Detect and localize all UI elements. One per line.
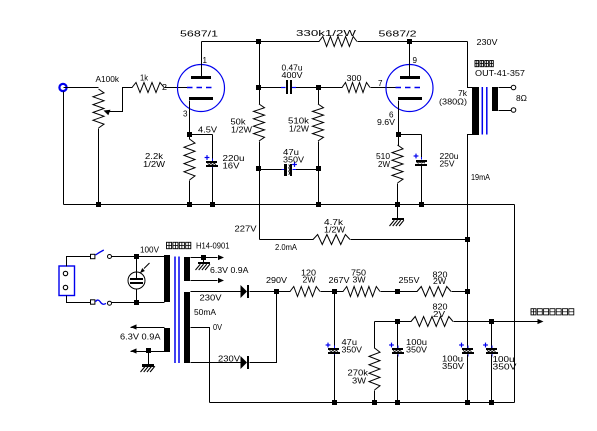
svg-text:4.5V: 4.5V — [198, 125, 217, 135]
wire 750 to 255V node — [381, 289, 418, 294]
wire heater2 top tap — [131, 324, 165, 329]
svg-text:400V: 400V — [282, 70, 303, 80]
wire 1k to tube V1 grid — [165, 87, 188, 89]
transformer T2 model label — [475, 68, 525, 78]
ground symbol center — [390, 205, 405, 227]
svg-text:25V: 25V — [440, 159, 455, 169]
svg-text:5687/2: 5687/2 — [379, 29, 417, 39]
svg-text:230V: 230V — [200, 293, 222, 303]
wire lamp bottom — [136, 290, 138, 303]
resistor 300 grid stopper V2 — [319, 73, 396, 93]
label 6.3V 0.9A left — [120, 332, 161, 342]
svg-text:9.6V: 9.6V — [377, 117, 395, 127]
svg-text:6.3V 0.9A: 6.3V 0.9A — [120, 332, 161, 342]
capacitor 100u 350V filter c — [483, 322, 517, 403]
wire OPT primary bottom B+ feed — [465, 135, 473, 292]
tube V2 5687/2 envelope — [386, 65, 433, 112]
potentiometer A100k — [93, 74, 120, 128]
wire V1 cathode drop — [187, 101, 192, 138]
pin 2 label V1 — [162, 82, 167, 92]
label 4.5V — [198, 125, 217, 135]
svg-text:3W: 3W — [352, 376, 367, 386]
svg-text:OUT-41-357: OUT-41-357 — [475, 68, 525, 78]
svg-text:(380Ω): (380Ω) — [439, 97, 467, 107]
wire fuse to transformer primary bottom — [112, 300, 165, 305]
svg-text:5687/1: 5687/1 — [180, 29, 218, 39]
svg-text:100V: 100V — [140, 245, 159, 255]
svg-text:3: 3 — [183, 109, 188, 119]
tube V1 plate bar — [191, 76, 211, 79]
svg-text:267V: 267V — [329, 275, 350, 285]
wire plug to switch top — [67, 257, 91, 267]
wire D2 up to 290V node — [250, 292, 277, 363]
transformer T1 maker label — [167, 242, 191, 248]
label 230V B+ — [477, 37, 498, 47]
svg-text:1/2W: 1/2W — [289, 124, 310, 134]
wire 120 to 267V node — [321, 289, 344, 294]
label 50mA — [194, 307, 216, 317]
resistor 50k 1/2W plate load — [231, 88, 265, 240]
capacitor 100u 350V filter b — [442, 292, 474, 403]
svg-text:330k1/2W: 330k1/2W — [296, 28, 357, 38]
label to other channel — [531, 309, 574, 315]
node input RCA jack — [59, 84, 66, 91]
svg-text:2.0mA: 2.0mA — [275, 242, 297, 252]
label 230V HT top — [200, 293, 222, 303]
label 255V — [399, 275, 420, 285]
svg-text:3W: 3W — [353, 275, 367, 285]
svg-text:2W: 2W — [433, 276, 447, 286]
svg-text:16V: 16V — [223, 161, 240, 171]
resistor 820 2W second — [375, 302, 454, 327]
svg-text:350V: 350V — [283, 155, 304, 165]
capacitor 220u 25V cathode bypass — [414, 151, 459, 205]
svg-text:1/2W: 1/2W — [231, 125, 253, 135]
wire pot bottom to ground rail — [98, 129, 100, 205]
svg-text:1: 1 — [203, 55, 208, 65]
svg-text:H14-0901: H14-0901 — [196, 241, 230, 251]
tube V2 plate bar — [400, 76, 420, 79]
diode D2 — [241, 356, 250, 369]
svg-text:2W: 2W — [303, 275, 317, 285]
svg-text:7: 7 — [378, 78, 383, 88]
svg-text:1/2W: 1/2W — [324, 225, 346, 235]
label 9.6V — [377, 117, 395, 127]
pin 7 label V2 — [378, 78, 383, 88]
svg-text:290V: 290V — [266, 275, 287, 285]
wire heater2 bottom tap — [131, 348, 165, 354]
wire switch to transformer primary top — [112, 254, 165, 259]
wire row2 to other channel — [454, 319, 544, 324]
svg-text:350V: 350V — [342, 345, 363, 355]
label 227V — [235, 224, 257, 234]
transformer T1 heater winding 1 — [184, 257, 190, 281]
transformer T2 primary winding — [472, 87, 479, 135]
resistor 820 2W — [417, 270, 451, 297]
wire plug to fuse bottom — [67, 296, 91, 303]
tube V1 cathode bar — [189, 97, 213, 100]
svg-text:255V: 255V — [399, 275, 420, 285]
neon pilot lamp — [128, 263, 150, 289]
fuse bottom pole — [91, 300, 112, 305]
resistor 120 2W — [277, 268, 321, 297]
tube V2 grid dashes — [396, 87, 424, 89]
svg-text:19mA: 19mA — [471, 172, 490, 182]
resistor 270k 3W bleeder — [348, 322, 381, 403]
wire HT bottom tap 230V — [191, 362, 241, 364]
wire heater1 top tap — [191, 255, 225, 260]
diode D1 — [241, 285, 250, 298]
wire top rail left (V1 plate node) — [202, 39, 320, 44]
wire V2 cathode drop — [396, 101, 401, 138]
wire psu ground rail — [210, 400, 515, 405]
tube V1 label — [180, 29, 218, 39]
capacitor 100u 350V filter a — [389, 322, 427, 403]
wire HT center tap 0V — [191, 328, 210, 403]
wire cathode node to bypass cap — [190, 135, 213, 161]
tube V2 cathode bar — [398, 97, 422, 100]
wire D1 to 290V node — [250, 289, 280, 294]
switch S1 top pole — [91, 250, 112, 259]
pin 3 label V1 — [183, 109, 188, 119]
wire top rail right (V2 plate node) — [358, 39, 468, 44]
wire OPT secondary top to terminal — [499, 85, 516, 90]
resistor 4.7k 1/2W decoupling — [260, 217, 468, 245]
transformer T2 OUT-41-357 maker label — [475, 61, 493, 67]
resistor 510k 1/2W grid leak — [288, 88, 324, 170]
svg-text:230V: 230V — [218, 354, 240, 364]
transformer T2 core — [482, 87, 487, 135]
transformer T1 primary winding — [164, 255, 170, 302]
capacitor 0.47u 400V coupling — [260, 63, 322, 95]
svg-text:350V: 350V — [442, 361, 464, 371]
svg-text:A100k: A100k — [96, 74, 120, 84]
svg-text:50mA: 50mA — [194, 307, 216, 317]
pin 9 label V2 — [413, 55, 418, 65]
label 267V — [329, 275, 350, 285]
label 7k (380ohm) — [439, 88, 468, 107]
wire V1 plate node drop — [256, 42, 261, 91]
wire V1 plate to top rail — [201, 42, 203, 77]
wire OPT secondary bottom to terminal — [499, 108, 516, 113]
svg-text:227V: 227V — [235, 224, 257, 234]
resistor 330k 1/2W feedback — [296, 28, 357, 47]
transformer T1 heater winding 2 — [164, 328, 170, 352]
resistor 1k grid stopper — [132, 73, 164, 93]
wire lamp top — [136, 257, 138, 273]
wire 820 to B+ node — [452, 289, 471, 294]
tube V1 5687/1 envelope — [178, 65, 225, 112]
capacitor 220u 16V cathode bypass — [205, 153, 245, 205]
transformer T2 secondary winding — [492, 87, 498, 111]
label 6.3V 0.9A right — [210, 265, 249, 275]
svg-text:350V: 350V — [406, 345, 427, 355]
capacitor 47u 350V filter — [326, 292, 363, 403]
resistor 2.2k 1/2W cathode — [143, 135, 195, 205]
svg-text:2W: 2W — [378, 159, 391, 169]
transformer T1 HT winding — [184, 292, 190, 363]
wire jack ground drop — [63, 92, 65, 205]
svg-text:6.3V 0.9A: 6.3V 0.9A — [210, 265, 249, 275]
label 8 ohm — [516, 93, 528, 103]
AC plug — [59, 266, 75, 296]
tube V2 label — [379, 29, 417, 39]
ground symbol heater2 — [141, 352, 155, 373]
pot wiper arm — [104, 88, 133, 116]
svg-text:1/2W: 1/2W — [143, 159, 166, 169]
svg-text:9: 9 — [413, 55, 418, 65]
transformer T1 core — [175, 257, 179, 364]
pin 6 label V2 — [389, 110, 394, 120]
svg-text:8Ω: 8Ω — [516, 93, 528, 103]
label 0V — [213, 322, 222, 332]
svg-text:2: 2 — [162, 82, 167, 92]
svg-text:230V: 230V — [477, 37, 498, 47]
resistor 750 3W — [343, 268, 380, 297]
wire top rail corner to OPT primary top — [468, 42, 473, 88]
resistor 510 2W cathode — [376, 135, 403, 205]
pin 1 label V1 — [203, 55, 208, 65]
wire 510k to ground rail — [318, 170, 320, 205]
transformer T1 model label — [196, 241, 230, 251]
label 19mA — [471, 172, 490, 182]
label 100V — [140, 245, 159, 255]
wire V2 plate to top rail — [409, 42, 411, 77]
ground symbol heater1 — [196, 258, 211, 271]
wire signal ground rail — [64, 202, 515, 207]
wire jack to volume pot — [64, 87, 99, 89]
svg-text:1k: 1k — [140, 73, 149, 83]
wire V2 cathode node to bypass cap — [399, 135, 422, 160]
capacitor 47u 350V decoupling — [256, 147, 321, 176]
label 2.0mA — [275, 242, 297, 252]
wire HT top tap 230V — [191, 291, 241, 293]
svg-text:0V: 0V — [213, 322, 222, 332]
svg-text:2V: 2V — [433, 309, 445, 319]
svg-text:300: 300 — [347, 73, 362, 83]
label 290V — [266, 275, 287, 285]
svg-text:350V: 350V — [493, 362, 517, 372]
label 230V HT bottom — [218, 354, 240, 364]
wire ground rail right drop — [514, 205, 516, 403]
wire heater1 bottom tap — [191, 278, 225, 283]
tube V1 grid dashes — [187, 87, 215, 89]
